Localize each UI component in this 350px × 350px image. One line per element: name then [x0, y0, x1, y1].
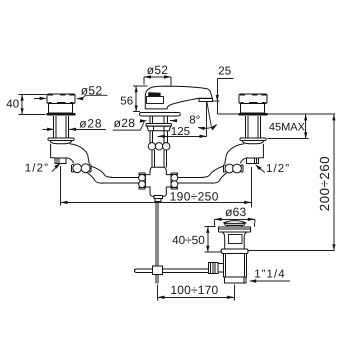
- drain tailpiece 1 1/4: [224, 277, 246, 283]
- dimension spout diameter 52: [144, 63, 171, 86]
- drain upper body: [222, 232, 246, 249]
- svg-text:25: 25: [218, 65, 231, 77]
- drain lower body: [224, 253, 247, 277]
- dimension spout shank diameter 28: [113, 116, 177, 130]
- dimension 40: [6, 94, 46, 114]
- left handle escutcheon: [48, 138, 74, 144]
- spout coupling nut: [148, 143, 170, 150]
- 8 degree angle: [189, 102, 217, 131]
- left handle stem: [54, 116, 69, 138]
- body inlet tube: [152, 150, 167, 168]
- left handle elbow body: [51, 144, 90, 164]
- dimension left knob diameter 52: [34, 83, 108, 100]
- svg-text:ø28: ø28: [114, 116, 136, 130]
- spout escutcheon: [140, 113, 181, 116]
- dimension 25: [213, 65, 234, 114]
- drain side inlet nut: [208, 262, 223, 273]
- dimension left stem diameter 28: [43, 116, 107, 131]
- spout shank flange: [146, 123, 172, 126]
- svg-text:56: 56: [120, 95, 133, 107]
- svg-text:200÷260: 200÷260: [317, 156, 332, 211]
- deck reference line: [217, 113, 335, 115]
- left handle union nut: [72, 164, 92, 173]
- svg-text:1”1/4: 1”1/4: [254, 269, 285, 281]
- spout shank tube: [150, 131, 167, 143]
- svg-text:100÷170: 100÷170: [170, 283, 218, 297]
- svg-text:1/2”: 1/2”: [25, 163, 49, 175]
- svg-text:190÷250: 190÷250: [170, 189, 219, 203]
- spout body: [145, 86, 212, 109]
- body right port nut: [171, 173, 178, 189]
- right handle escutcheon: [240, 138, 266, 144]
- right supply pipe: [170, 166, 227, 183]
- svg-text:8°: 8°: [189, 114, 200, 126]
- dimension 125: [158, 102, 207, 138]
- svg-text:ø52: ø52: [147, 63, 168, 77]
- dimension 190-250: [60, 166, 251, 207]
- drain plug cap: [224, 221, 246, 227]
- horizontal pull rod: [135, 269, 211, 272]
- drain flange: [218, 227, 250, 232]
- right handle elbow body: [225, 144, 264, 164]
- svg-text:ø63: ø63: [225, 205, 246, 219]
- label right 1/2 inch: [255, 163, 290, 175]
- dimension 40-50: [172, 227, 222, 253]
- drain reference line: [248, 250, 334, 252]
- spout locknut: [147, 126, 171, 131]
- dimension 100-170: [157, 283, 234, 301]
- spout aerator: [199, 98, 212, 101]
- rod clamp: [153, 266, 163, 274]
- svg-text:ø28: ø28: [79, 116, 102, 130]
- left supply pipe: [88, 166, 148, 183]
- svg-text:40: 40: [6, 99, 19, 111]
- dimension drain diameter 63: [214, 205, 255, 226]
- spout shank upper: [150, 116, 167, 124]
- right handle union nut: [223, 164, 243, 173]
- drain mid flange: [221, 249, 248, 253]
- body bottom nut: [154, 196, 163, 199]
- svg-text:40÷50: 40÷50: [172, 233, 205, 247]
- right handle tailpiece 1/2 inch: [247, 158, 259, 164]
- svg-text:45MAX: 45MAX: [269, 122, 306, 134]
- body left port nut: [139, 173, 146, 189]
- right handle stem: [246, 116, 261, 138]
- svg-text:1/2”: 1/2”: [266, 163, 290, 175]
- dimension 45MAX: [267, 114, 308, 139]
- rod coupler: [155, 199, 161, 202]
- spout lever notch: [148, 92, 160, 96]
- left handle tailpiece 1/2 inch: [55, 158, 66, 164]
- dimension spout height 56: [120, 86, 147, 112]
- label left 1/2 inch: [25, 163, 61, 175]
- mixer cross body: [145, 167, 171, 196]
- right handle knob: [238, 94, 267, 116]
- dimension 200-260: [317, 114, 336, 251]
- spout back step: [147, 96, 164, 103]
- pop-up rod: [156, 202, 158, 284]
- dimension 1 inch 1/4: [249, 269, 290, 283]
- left handle knob: [46, 94, 75, 116]
